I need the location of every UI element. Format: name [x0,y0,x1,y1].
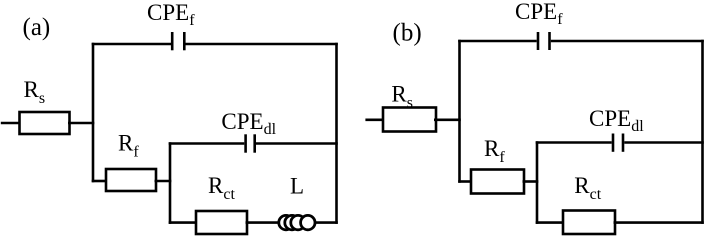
svg-text:Rct: Rct [574,173,601,203]
label CPE_f (b) [515,0,563,28]
wire left vertical (a) [92,43,95,183]
capacitor CPE_f (a) [172,32,184,50]
svg-text:CPEf: CPEf [515,0,563,28]
wire CPE_dl right segment (b) [624,141,704,144]
label CPE_dl (a) [221,109,276,138]
svg-text:(a): (a) [23,14,51,41]
svg-text:Rs: Rs [24,77,46,107]
svg-text:CPEf: CPEf [147,0,195,29]
svg-text:CPEdl: CPEdl [221,109,276,138]
wire top right segment (a) [186,43,338,46]
wire right vertical (b) [701,40,704,224]
svg-text:Rf: Rf [118,131,139,161]
wire bottom left segment (b) [536,221,564,224]
resistor R_ct (a) [196,211,247,234]
wire R_ct to inductor (a) [246,221,280,224]
wire inductor to right vertical (a) [315,221,338,224]
label R_f (a) [118,131,139,161]
label CPE_dl (b) [589,106,644,135]
label R_s (a) [24,77,46,107]
resistor R_s (b) [383,108,436,132]
label CPE_f (a) [147,0,195,29]
label (b) [393,19,422,46]
resistor R_ct (b) [563,211,615,235]
capacitor CPE_f (b) [538,32,550,50]
capacitor CPE_dl (a) [246,134,255,152]
wire R_f to inner node (a) [155,180,172,183]
capacitor CPE_dl (b) [613,134,623,152]
svg-text:Rct: Rct [208,173,235,203]
resistor R_f (b) [471,170,524,194]
label R_s (b) [391,82,413,112]
wire inner left vertical (b) [536,141,539,224]
svg-text:(b): (b) [393,19,422,46]
wire R_f branch left (a) [92,180,107,183]
wire CPE_dl left segment (b) [536,141,612,144]
resistor R_s (a) [20,112,70,134]
wire inner left vertical (a) [169,142,172,224]
label R_f (b) [484,136,505,166]
svg-text:CPEdl: CPEdl [589,106,644,135]
wire bottom right segment (b) [614,221,704,224]
wire input (b) [365,119,384,122]
wire CPE_dl left segment (a) [169,142,245,145]
svg-text:Rf: Rf [484,136,505,166]
wire bottom left segment (a) [169,221,197,224]
label R_ct (b) [574,173,601,203]
wire CPE_dl right segment (a) [256,142,338,145]
wire R_f to inner node (b) [523,180,539,183]
wire right vertical (a) [335,43,338,224]
label R_ct (a) [208,173,235,203]
label (a) [23,14,51,41]
svg-text:L: L [290,174,304,199]
wire top left segment (b) [458,40,537,43]
wire left vertical (b) [458,40,461,183]
inductor L (a) [279,215,315,229]
label L (a) [290,174,304,199]
wire R_s to node (b) [434,119,461,122]
wire R_s to node (a) [68,122,94,125]
wire top left segment (a) [92,43,171,46]
wire input (a) [1,122,21,125]
resistor R_f (a) [106,169,156,191]
wire top right segment (b) [551,40,704,43]
wire R_f branch left (b) [458,180,472,183]
